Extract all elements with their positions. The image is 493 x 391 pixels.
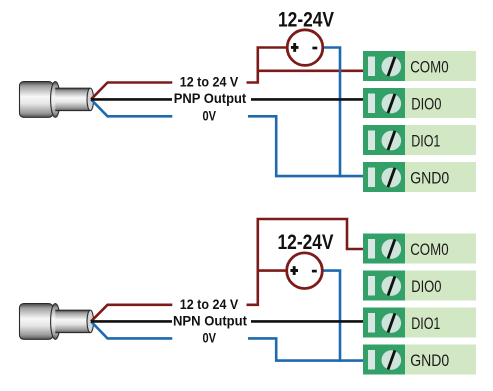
wire: sensor blue 0V lead (bottom) [91,321,172,338]
svg-text:0V: 0V [203,108,217,124]
wire: blue from label down to GND0 (top) [248,116,364,176]
wire: brown from label up over PSU to COM0 (bottom) [247,219,364,305]
svg-text:0V: 0V [203,331,217,347]
svg-text:COM0: COM0 [410,240,448,259]
wire: sensor black PNP output lead (top) [91,98,172,101]
terminal GND0 (bottom) [363,345,476,375]
svg-text:12 to 24 V: 12 to 24 V [180,75,239,91]
wire: sensor brown 12-24V lead (bottom) [91,305,172,322]
svg-text:DIO0: DIO0 [411,277,441,296]
svg-text:GND0: GND0 [410,351,449,370]
wire: blue PSU negative to GND rail (bottom) [322,271,340,362]
svg-text:12-24V: 12-24V [278,8,335,32]
svg-text:DIO1: DIO1 [411,131,440,150]
wire: brown from label to PSU+ junction, up to source (top) [247,48,288,83]
terminal GND0 (top) [363,162,476,192]
sensor S1 (top, PNP) [20,82,94,118]
terminal COM0 (top) [363,51,476,81]
terminal COM0 (bottom) [363,234,476,264]
power supply V1 12-24V (top) [287,30,323,66]
svg-text:DIO1: DIO1 [411,314,440,333]
terminal DIO1 (top) [363,125,476,155]
svg-text:12 to 24 V: 12 to 24 V [180,297,239,313]
terminal DIO0 (bottom) [363,271,476,301]
power supply V2 12-24V (bottom) [287,253,323,289]
terminal DIO1 (bottom) [363,308,476,338]
wire: blue PSU negative to GND rail (top) [323,48,340,178]
svg-text:NPN Output: NPN Output [173,314,247,330]
svg-text:GND0: GND0 [410,168,449,187]
svg-text:DIO0: DIO0 [411,94,441,113]
wire: brown branch to COM0 (top) [258,70,364,73]
wire: sensor black NPN output lead (bottom) [91,320,172,323]
svg-text:12-24V: 12-24V [278,230,335,254]
wire: sensor brown 12-24V lead (top) [91,83,172,100]
terminal DIO0 (top) [363,88,476,118]
wire: black output to DIO1 (bottom) [251,320,364,323]
wire: sensor blue 0V lead (top) [91,99,172,116]
sensor S2 (bottom, NPN) [20,304,94,340]
wire: blue from label down to GND0 (bottom) [248,338,364,360]
svg-text:PNP Output: PNP Output [174,91,247,107]
wire: black output to DIO0 (top) [251,98,364,101]
svg-text:COM0: COM0 [410,57,448,76]
wire: brown PSU positive stub (bottom) [258,269,287,272]
